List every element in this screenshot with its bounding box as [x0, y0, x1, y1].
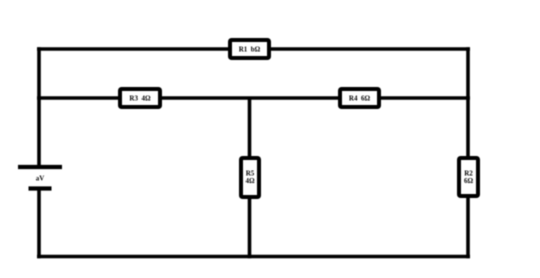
wire middle horizontal (R3/R4 branch) — [37, 96, 470, 100]
resistor R1 bΩ — [230, 40, 269, 58]
resistor R2 6Ω — [459, 158, 478, 196]
svg-text:R1 bΩ: R1 bΩ — [239, 46, 261, 54]
svg-text:R3 4Ω: R3 4Ω — [129, 95, 151, 103]
resistor R3 4Ω — [120, 89, 160, 107]
battery V1 aV — [18, 167, 62, 189]
resistor R5 4Ω — [241, 158, 259, 197]
wire left lower (battery - lead) — [37, 189, 41, 259]
wire right (through R2) — [466, 47, 470, 258]
wire top (node between battery + and R1) — [37, 47, 470, 51]
svg-text:R4 6Ω: R4 6Ω — [349, 95, 371, 103]
wire bottom (return/ground rail) — [37, 255, 470, 259]
wire left upper (battery + lead) — [37, 47, 41, 167]
svg-text:4Ω: 4Ω — [245, 177, 255, 185]
svg-text:aV: aV — [36, 175, 45, 183]
svg-text:6Ω: 6Ω — [464, 177, 474, 185]
resistor R4 6Ω — [340, 89, 379, 107]
wire center vertical (through R5) — [248, 98, 252, 258]
